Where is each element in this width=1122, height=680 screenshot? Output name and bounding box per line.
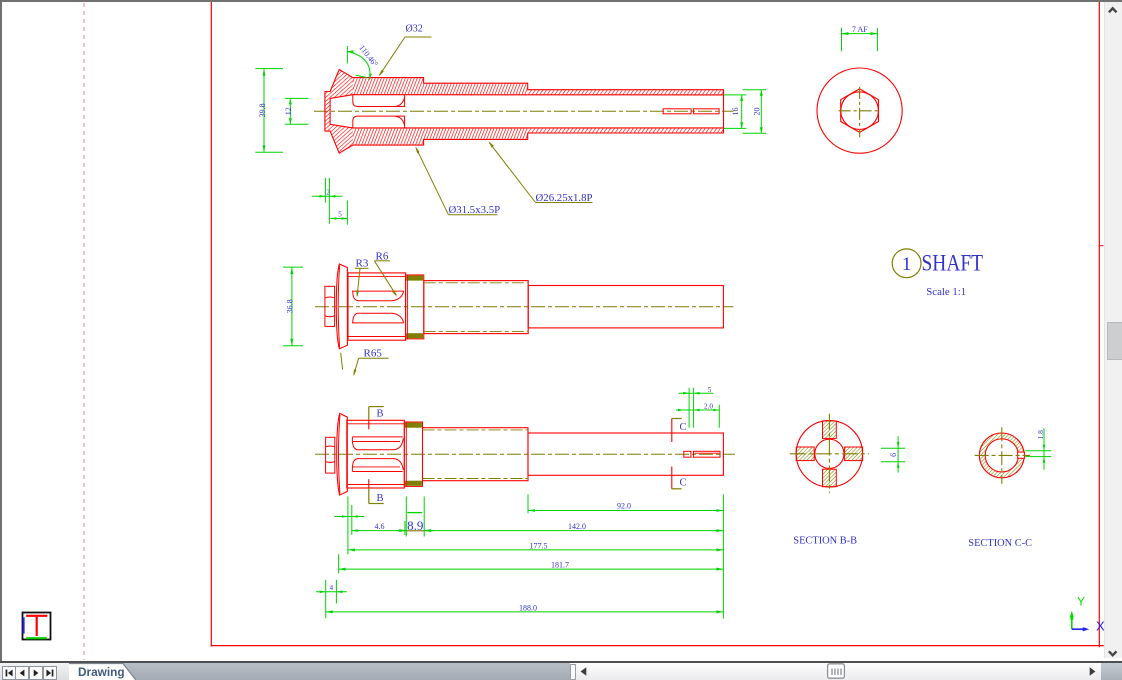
thread collar (bottom view) <box>404 422 422 486</box>
svg-text:16: 16 <box>731 108 740 116</box>
sheet nav button panel <box>0 663 70 680</box>
section mark B top <box>369 407 384 430</box>
dimension 36.8 <box>283 267 303 346</box>
paper margin dashed line <box>83 3 85 660</box>
svg-text:20: 20 <box>753 108 762 116</box>
dimension tick pair <box>334 496 364 554</box>
svg-text:2: 2 <box>326 189 330 197</box>
dimension 188.0 <box>326 603 724 613</box>
section B-B outer circle <box>796 421 862 487</box>
keyway slot left <box>663 109 691 114</box>
label O32 <box>379 24 432 77</box>
horizontal scrollbar track <box>576 663 1101 680</box>
top view centerline <box>314 110 734 112</box>
Drawing tab <box>69 662 139 680</box>
svg-text:7 AF: 7 AF <box>852 25 868 34</box>
slot upper (bottom view) <box>352 437 403 450</box>
section B-B centermark <box>790 414 869 493</box>
svg-text:Ø32: Ø32 <box>406 24 423 35</box>
splitter handle <box>570 664 577 680</box>
tab strip background <box>0 663 570 680</box>
svg-text:181.7: 181.7 <box>551 561 569 570</box>
drawing frame left border <box>210 0 212 647</box>
svg-text:177.5: 177.5 <box>530 541 548 550</box>
nav button next <box>29 666 43 680</box>
svg-text:5: 5 <box>338 211 342 219</box>
nav button last <box>43 666 57 680</box>
dimension 5 (keyway) <box>678 386 713 428</box>
section B-B spoke north <box>823 421 837 439</box>
horizontal scrollbar left arrow <box>578 665 590 678</box>
spherical flange (R65 dome) <box>336 264 347 349</box>
UCS X axis <box>1072 627 1090 631</box>
section B-B spoke south <box>823 469 837 487</box>
spherical flange (bottom view) <box>337 413 348 495</box>
middle view centerline <box>315 306 734 308</box>
window top border <box>0 0 1122 2</box>
label O31.5x3.5P <box>415 146 500 216</box>
svg-text:Ø31.5x3.5P: Ø31.5x3.5P <box>449 204 501 216</box>
svg-text:39.8: 39.8 <box>258 103 267 117</box>
svg-text:12: 12 <box>284 107 293 115</box>
dimension 110.46 deg <box>347 43 379 79</box>
dimension 8.9 <box>396 497 434 537</box>
nav button first <box>2 666 16 680</box>
bottom bar dark separator <box>0 661 1122 663</box>
dimension 20 <box>743 90 766 134</box>
svg-text:SECTION C-C: SECTION C-C <box>968 538 1032 549</box>
svg-text:Drawing: Drawing <box>78 665 125 679</box>
svg-text:1.8: 1.8 <box>1036 430 1045 440</box>
dimension 4.6 <box>352 521 405 535</box>
svg-text:SHAFT: SHAFT <box>922 251 984 276</box>
section C-C keyway notch <box>1018 452 1025 458</box>
end view socket circle <box>841 92 879 130</box>
internal slot lower <box>353 116 405 128</box>
dimension 1.8 (ring) <box>1025 428 1051 469</box>
dimension 39.8 <box>255 69 283 153</box>
slot upper (side view) <box>352 291 404 301</box>
svg-text:142.0: 142.0 <box>568 522 586 531</box>
svg-text:C: C <box>680 478 687 489</box>
svg-text:1: 1 <box>902 254 912 275</box>
frame tick mark <box>1099 245 1103 247</box>
label R6 <box>374 250 397 297</box>
shaft body cross-section (hatched) <box>325 70 724 154</box>
svg-text:8.9: 8.9 <box>407 518 423 533</box>
window left border <box>0 0 2 662</box>
svg-text:C: C <box>680 422 687 433</box>
thread collar <box>406 275 424 339</box>
drawing frame right border <box>1098 0 1100 647</box>
svg-text:92.0: 92.0 <box>617 502 631 511</box>
shaft end face <box>723 90 725 133</box>
drawing frame bottom border <box>211 645 1104 647</box>
svg-text:5: 5 <box>708 386 712 394</box>
dimension 16 <box>724 95 747 128</box>
view cube icon <box>23 613 51 640</box>
horizontal scrollbar thumb <box>826 663 846 679</box>
vertical scrollbar down arrow <box>1104 646 1122 662</box>
section mark C top <box>672 419 687 443</box>
dimension 2.0 (keyway) <box>676 402 719 427</box>
svg-text:B: B <box>377 408 384 419</box>
section C-C ring <box>979 433 1024 478</box>
flange barrel (bottom view) <box>347 420 405 488</box>
dimension 142.0 <box>424 522 723 532</box>
dimension 4 (hex) <box>316 580 347 619</box>
keyway slot right <box>694 109 720 114</box>
hex end flats (bottom view) <box>326 437 335 473</box>
section mark C bottom <box>672 467 687 489</box>
threaded section O26.25 <box>424 281 528 334</box>
slot lower (side view) <box>352 313 404 323</box>
end view centermark <box>839 87 881 137</box>
hex socket <box>841 89 879 133</box>
svg-text:B: B <box>377 493 384 504</box>
vertical scrollbar <box>1104 2 1122 658</box>
dimension 12 <box>284 98 308 124</box>
dimension 6 (spoke) <box>881 436 905 472</box>
dimension 177.5 <box>348 541 724 551</box>
section C-C centermark <box>975 427 1031 483</box>
nav button prev <box>15 666 29 680</box>
section B-B spoke east <box>845 447 863 461</box>
svg-text:Scale 1:1: Scale 1:1 <box>926 286 966 298</box>
label R3 <box>355 258 369 298</box>
hex end flats <box>325 286 335 326</box>
end view outer circle <box>817 68 902 153</box>
dimension 2 <box>312 178 343 224</box>
svg-text:4.6: 4.6 <box>375 522 385 531</box>
label R65 <box>341 347 389 376</box>
threaded section O26.25 (bottom view) <box>423 428 529 481</box>
horizontal scrollbar right arrow <box>1086 665 1098 678</box>
slot lower (bottom view) <box>352 459 403 472</box>
bottom view centerline <box>315 453 735 455</box>
item balloon 1 <box>892 249 921 278</box>
svg-text:Y: Y <box>1077 595 1085 609</box>
scrollbar corner <box>1101 663 1122 680</box>
dimension 5 <box>330 200 347 224</box>
svg-text:188.0: 188.0 <box>519 603 537 612</box>
svg-text:36.8: 36.8 <box>286 299 295 313</box>
svg-text:R65: R65 <box>364 347 383 359</box>
end journal section <box>528 286 723 328</box>
end journal (bottom view) <box>528 433 723 475</box>
section mark B bottom <box>369 479 384 504</box>
dimension 181.7 <box>339 554 724 573</box>
internal slot upper <box>353 95 405 107</box>
vertical scrollbar thumb <box>1107 322 1122 360</box>
section B-B inner circle <box>815 439 844 468</box>
svg-text:6: 6 <box>889 453 898 457</box>
svg-text:SECTION B-B: SECTION B-B <box>793 536 857 547</box>
vertical scrollbar up arrow <box>1104 2 1122 20</box>
UCS Y axis <box>1070 611 1074 629</box>
dimension 92.0 <box>528 494 723 618</box>
svg-text:2.0: 2.0 <box>704 402 713 410</box>
keyway (bottom view) <box>684 451 720 457</box>
dimension 7 AF <box>842 25 878 51</box>
section B-B spoke west <box>796 447 814 461</box>
flange barrel <box>348 273 406 340</box>
svg-text:4: 4 <box>330 584 334 592</box>
label O26.25x1.8P <box>489 141 593 204</box>
